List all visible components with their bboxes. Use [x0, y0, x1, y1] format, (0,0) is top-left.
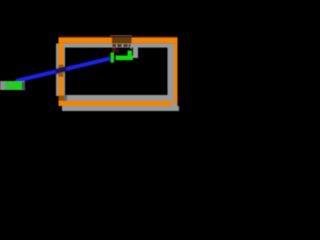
gray corner patch bottom-right — [172, 101, 178, 106]
blue line dark halo — [16, 59, 110, 82]
gray frame: top inside band — [64, 43, 175, 47]
dark tooltip overlay on orange top border — [112, 37, 132, 43]
dark smudge on orange below crossing — [59, 73, 64, 77]
gray frame: bottom outside shadow band — [62, 106, 179, 111]
left gray platform — [0, 81, 25, 90]
orange rectangle: left band — [59, 43, 64, 106]
orange rectangle: top band — [59, 37, 178, 43]
gray frame: left inside sliver — [64, 48, 66, 95]
dark red specks under tooltip — [112, 48, 119, 53]
faint gray dotted line above tooltip — [110, 35, 132, 36]
left platform dark right segment — [22, 82, 25, 90]
gray strip right of tooltip — [133, 43, 138, 58]
left green sprite — [5, 82, 22, 90]
dark segment where line crosses orange border — [56, 69, 67, 72]
dark red ringing line above orange top border — [59, 36, 178, 38]
gray frame: bottom inside band — [64, 95, 175, 101]
orange rectangle: right band — [174, 43, 178, 103]
blue line — [16, 59, 110, 82]
light blue pixel near tooltip — [131, 48, 133, 50]
gray frame: right inside band — [168, 43, 175, 101]
gray frame: left outside sliver — [56, 43, 59, 96]
dark blemish at bottom-left corner of orange border — [59, 96, 64, 101]
center green sprite — [111, 51, 134, 63]
dark smudge on orange above crossing — [59, 65, 64, 69]
dark maroon text marks on gray band — [113, 44, 131, 47]
orange rectangle: bottom band — [59, 101, 173, 106]
